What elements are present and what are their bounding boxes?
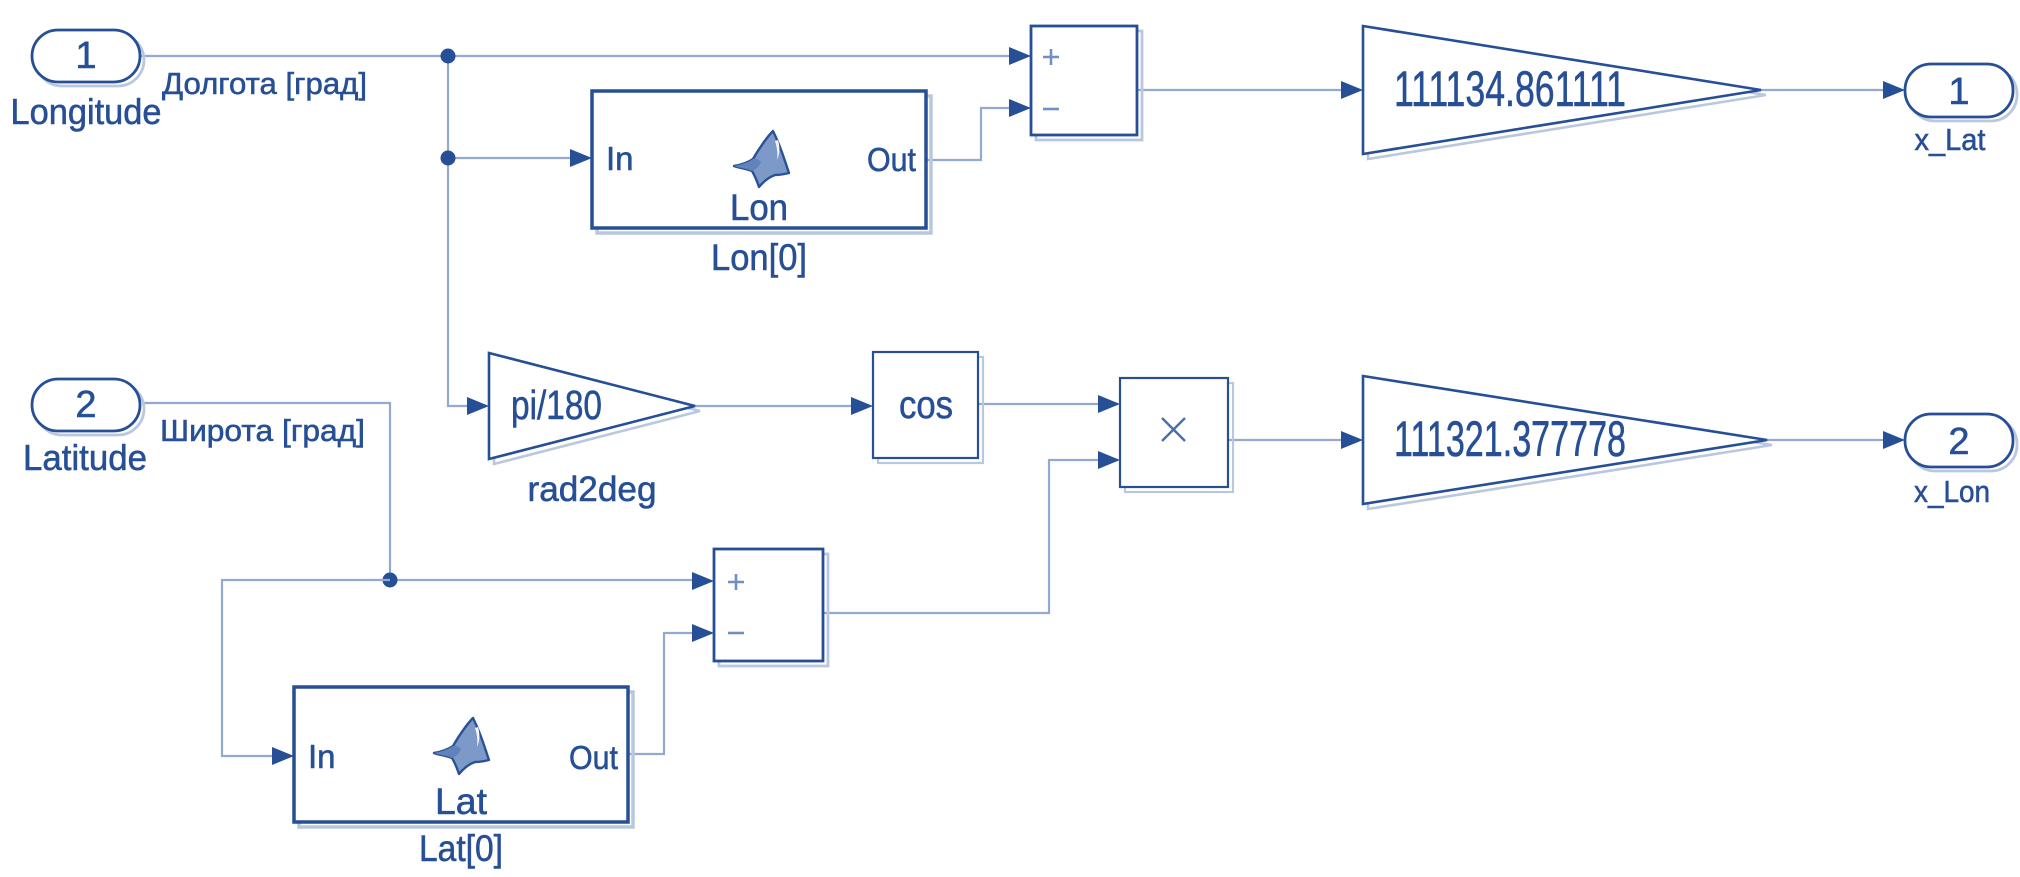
wire sum2 to product lower input: [823, 460, 1100, 613]
svg-text:In: In: [606, 140, 634, 177]
wire branch down from node A: [448, 56, 470, 406]
svg-text:Longitude: Longitude: [11, 91, 162, 132]
svg-text:Out: Out: [867, 141, 916, 178]
sum block 1: [1031, 26, 1142, 140]
svg-text:Out: Out: [569, 739, 618, 776]
inport 1 Longitude: [32, 30, 144, 86]
svg-text:x_Lat: x_Lat: [1915, 122, 1986, 157]
node C junction: [383, 573, 398, 588]
svg-text:Lon: Lon: [730, 187, 788, 228]
svg-text:2: 2: [75, 384, 96, 426]
wire product to gain2: [1228, 439, 1342, 441]
inport 2 Latitude: [32, 379, 144, 435]
svg-text:111134.861111: 111134.861111: [1394, 61, 1626, 117]
sum block 2: [714, 549, 828, 666]
svg-text:Lon[0]: Lon[0]: [711, 237, 807, 278]
node B junction: [441, 151, 456, 166]
wire Lon Out to sum1 minus: [926, 108, 1010, 160]
MATLAB logo in Lon: [734, 131, 789, 187]
cos block: [873, 352, 983, 463]
svg-text:Широта [град]: Широта [град]: [160, 413, 365, 448]
svg-text:Lat[0]: Lat[0]: [419, 828, 503, 869]
wire node C to Lat In: [222, 580, 390, 756]
outport 2 x_Lon: [1905, 414, 2017, 471]
svg-text:pi/180: pi/180: [511, 382, 602, 428]
wire gain1 to outport x_Lat: [1761, 89, 1884, 91]
MATLAB Function block Lon: [592, 91, 931, 233]
wire node B to Lon In: [448, 157, 572, 159]
MATLAB Function block Lat: [294, 687, 633, 827]
svg-text:cos: cos: [899, 384, 953, 427]
wire node C to sum2 plus: [390, 579, 694, 581]
svg-text:Lat: Lat: [435, 781, 488, 822]
svg-text:x_Lon: x_Lon: [1914, 474, 1990, 509]
MATLAB logo in Lat: [434, 718, 489, 774]
gain block pi/180: [489, 353, 700, 464]
svg-text:2: 2: [1948, 421, 1969, 463]
wire gain2 to outport x_Lon: [1767, 439, 1884, 441]
svg-text:rad2deg: rad2deg: [528, 470, 657, 509]
outport 1 x_Lat: [1905, 64, 2017, 121]
wire port2 down to node C: [143, 403, 390, 580]
wire cos to product: [978, 403, 1100, 405]
wire Lat Out to sum2 minus: [628, 633, 694, 754]
wire port1 to sum1 plus: [141, 55, 1010, 57]
svg-text:Latitude: Latitude: [23, 437, 147, 478]
svg-text:Долгота [град]: Долгота [град]: [162, 66, 367, 101]
wire gain rad2deg to cos: [695, 405, 852, 407]
svg-text:1: 1: [1948, 71, 1969, 113]
gain block 111321.377778: [1363, 376, 1772, 509]
svg-text:In: In: [308, 738, 336, 775]
product block: [1120, 378, 1233, 492]
svg-text:111321.377778: 111321.377778: [1394, 411, 1626, 467]
node A junction: [441, 49, 456, 64]
arrow into gain rad2deg: [467, 397, 489, 415]
gain block 111134.861111: [1363, 26, 1766, 159]
svg-text:1: 1: [75, 35, 96, 77]
wire sum1 to gain1: [1137, 89, 1342, 91]
